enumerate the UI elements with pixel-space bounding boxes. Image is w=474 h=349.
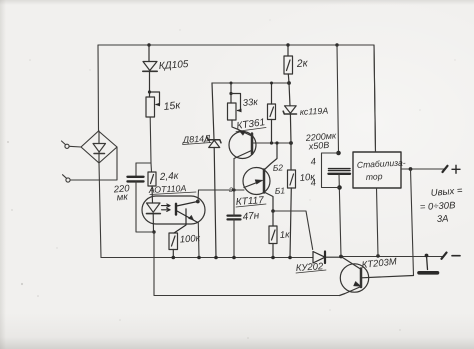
opto phototransistor [174,202,198,234]
zener КС119А [283,83,296,143]
node top bus junction at KD105 [147,43,150,46]
thyristor КУ202 [313,252,341,264]
svg-text:тор: тор [366,171,383,182]
terminal plus [443,165,461,173]
svg-text:2к: 2к [295,57,309,70]
svg-text:КД105: КД105 [158,59,189,72]
wire bridge bottom to negative bus [99,163,101,258]
resistor 2,4к [148,172,156,186]
node rail end 2k/zener [287,81,291,85]
wire stabilizer top [374,45,376,152]
bridge rectifier [81,131,117,163]
opto LED [147,186,161,232]
terminal minus [442,253,461,259]
stabilizer box Стабилизатор [353,152,401,188]
wire emitter node (э) horizontal [199,189,245,191]
capacitor 220мк [128,177,155,232]
AC input terminal upper [62,141,82,148]
wire output plus line [401,168,444,170]
svg-text:Uвых =: Uвых = [430,185,463,199]
resistor 1к [269,211,277,258]
ground [419,256,438,273]
node opto collector on oval edge [196,200,200,204]
wire opto emitter down to bus [197,223,200,258]
svg-text:100к: 100к [179,233,201,245]
node base wire / R bottom [270,141,273,144]
node bus 47н [232,256,236,260]
opto light arrows [162,204,171,211]
wire КТ361 base horizontal [253,142,292,144]
node bus Д814Д [214,256,218,260]
svg-text:Стабилиза-: Стабилиза- [357,157,406,170]
svg-text:х50В: х50В [307,140,329,152]
svg-text:КТ203М: КТ203М [361,256,397,271]
svg-text:33к: 33к [242,97,258,109]
wire AC2 to bridge right corner [70,147,117,180]
svg-text:Б2: Б2 [272,162,283,173]
wire base feed vertical [411,169,414,276]
svg-text:кс119А: кс119А [300,106,329,117]
svg-text:3А: 3А [437,213,449,225]
wire left drop to bridge [97,45,100,131]
wire stabilizer bottom [377,188,379,256]
svg-text:15к: 15к [163,99,182,113]
wire Б1 node to gate [273,211,313,250]
wire output negative line [341,256,443,258]
wire AC1 to bridge [69,145,81,148]
optocoupler АОТ110А [142,196,205,224]
svg-text:= 0÷30В: = 0÷30В [420,200,457,213]
node bus 100k [172,256,176,260]
wire КТ361 collector down through э to 47n [233,159,235,191]
svg-text:э: э [229,184,233,194]
node base wire / Б2 [275,141,278,144]
node top bus junction at 2k [286,43,289,46]
transistor КТ361 [229,130,256,159]
node minus line / stabilizer bottom [376,254,380,258]
svg-text:47н: 47н [242,210,260,223]
svg-text:4: 4 [310,156,317,168]
diode КД105 [143,45,157,97]
resistor 33к (trimmer) [228,83,242,130]
wire 15k down and jog to 2,4k [136,117,152,176]
resistor 100к [169,233,178,258]
wire KT203 emitter to LED cathode [154,232,340,296]
node minus line / KT203 collector / 2200uF [339,255,343,259]
node rail/33k stub [230,82,233,85]
resistor 15к (trimmer) [146,90,160,117]
capacitor 2200мк х50В [322,45,351,257]
capacitor 47н [228,190,241,258]
node LED cathode / 220uF junction [152,230,155,233]
AC input terminal lower [63,147,118,182]
svg-text:КУ202: КУ202 [295,261,324,274]
wire top bus [98,44,374,46]
node top bus junction at 2200uF [335,43,338,46]
resistor 2к [284,45,293,83]
resistor 10к [288,143,296,258]
node э wire / 47n vertical [232,188,235,191]
svg-text:Б1: Б1 [274,185,285,196]
wire opto collector up to emitter-node wire [197,190,200,202]
transistor КТ203М [340,257,414,296]
wire top bus right drop to stabilizer [374,45,376,152]
node Б1 junction [271,209,275,213]
resistor (unlabeled) [268,82,276,144]
wire internal rail y=83 [212,82,289,84]
node plus line / base feed [409,167,413,171]
svg-text:1к: 1к [279,229,290,241]
node bus 1к [271,256,275,260]
node bus 10к [288,256,292,260]
svg-text:КТ117: КТ117 [235,195,264,208]
svg-text:2,4к: 2,4к [158,171,180,183]
svg-text:4: 4 [310,177,317,189]
node minus line / ground [425,254,429,258]
wire negative bus [101,257,313,259]
zener Д814Д [207,83,221,258]
node base wire corner at 10k [289,141,293,145]
node bus opto emitter [197,256,201,260]
transistor КТ117 [243,143,277,211]
svg-text:мк: мк [116,192,128,204]
